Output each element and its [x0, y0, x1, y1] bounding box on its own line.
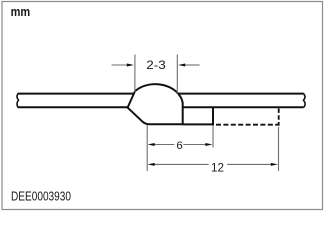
- svg-text:12: 12: [211, 161, 224, 175]
- dashed vertical hidden line: [278, 108, 280, 125]
- plate top line left: [18, 93, 134, 95]
- dim 12 line and arrows: [153, 163, 209, 165]
- svg-text:DEE0003930: DEE0003930: [11, 190, 71, 204]
- dim 6 right extension line: [212, 126, 214, 147]
- plate right break edge: [304, 94, 306, 108]
- dim 6 left extension line: [146, 125, 148, 171]
- svg-text:6: 6: [176, 140, 182, 152]
- dim 2-3 left extension line: [134, 55, 136, 93]
- svg-text:2-3: 2-3: [146, 59, 166, 72]
- dim 2-3 right arrow: [184, 64, 199, 66]
- dim 6 line and arrows: [153, 144, 175, 146]
- weld bead outline: [128, 84, 183, 124]
- svg-text:mm: mm: [11, 4, 31, 19]
- plate bottom line right: [182, 106, 304, 108]
- dim 2-3 left arrow: [112, 64, 128, 66]
- dashed horizontal hidden line: [216, 124, 279, 126]
- plate top line right: [177, 93, 303, 95]
- dim 2-3 right extension line: [176, 55, 178, 94]
- weld root bottom line: [183, 123, 214, 125]
- dim 12 right extension line: [278, 127, 280, 171]
- plate left break edge: [17, 94, 19, 108]
- plate bottom line left: [18, 106, 128, 108]
- vertical line at weld root right: [212, 107, 214, 126]
